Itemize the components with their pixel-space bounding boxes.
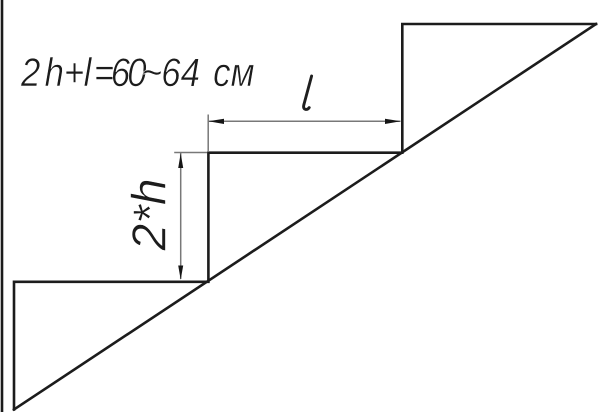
- svg-text:2h+l=60~64 см: 2h+l=60~64 см: [20, 50, 254, 95]
- svg-text:2*h: 2*h: [124, 178, 178, 251]
